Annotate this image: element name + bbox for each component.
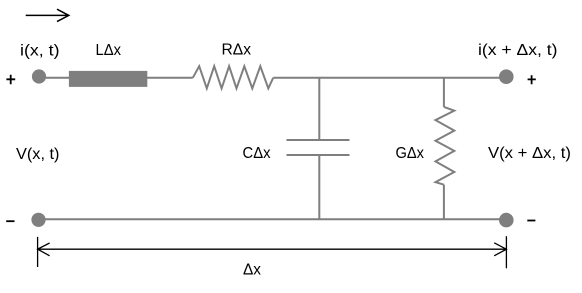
dimension extent tick right [505,236,507,268]
wire top left segment [39,77,193,79]
svg-text:LΔx: LΔx [96,42,122,59]
capacitor branch lower wire [318,155,320,219]
minus sign right terminal [527,220,535,222]
svg-text:RΔx: RΔx [222,42,252,59]
conductance branch upper wire [443,78,445,107]
svg-text:GΔx: GΔx [396,145,425,162]
node left top terminal [32,69,46,83]
svg-text:Δx: Δx [243,262,261,279]
dimension extent tick left [37,237,39,267]
node right bottom terminal [499,213,514,228]
wire bottom [39,218,507,220]
minus sign left terminal [6,220,14,222]
plus sign left terminal [6,75,15,84]
svg-text:i(x + Δx, t): i(x + Δx, t) [478,42,558,59]
dimension arrow Δx span [38,243,507,256]
capacitor branch upper wire [318,78,320,140]
plus sign right terminal [528,75,536,84]
wire top right segment [273,77,506,79]
capacitor C plates [287,140,350,155]
node right top terminal [499,69,514,84]
conductance branch lower wire [443,185,445,220]
inductor L (filled bar) [69,71,147,87]
resistor G (shunt zigzag) [436,107,455,185]
svg-text:CΔx: CΔx [243,145,271,162]
current direction arrow (top left) [26,9,69,21]
node left bottom terminal [31,213,45,227]
svg-text:i(x, t): i(x, t) [20,43,60,60]
svg-text:V(x, t): V(x, t) [16,146,60,163]
svg-text:V(x + Δx, t): V(x + Δx, t) [488,145,571,162]
resistor R (series zigzag) [193,66,273,88]
